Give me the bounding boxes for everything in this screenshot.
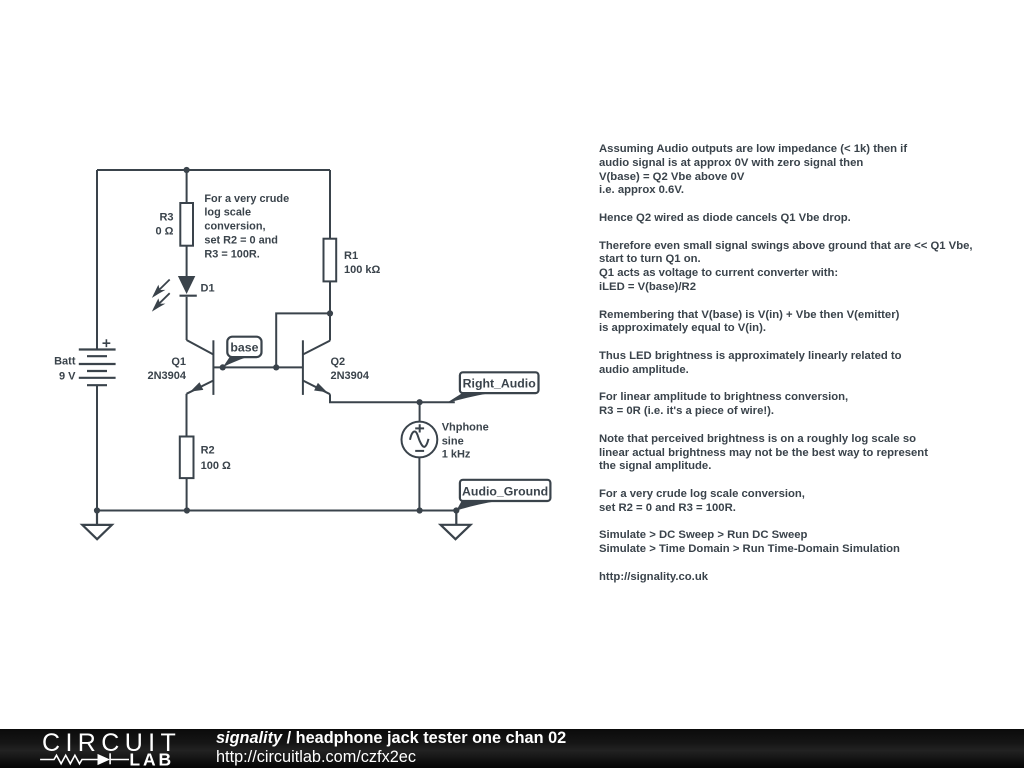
wire base xyxy=(213,366,303,368)
node R1 bottom junction xyxy=(327,310,333,316)
node base flag attach xyxy=(220,364,226,370)
node bottom rail ground xyxy=(453,507,459,513)
svg-text:D1: D1 xyxy=(201,283,215,295)
svg-text:LAB: LAB xyxy=(129,750,174,768)
label Q2 2N3904 xyxy=(331,356,370,382)
ground left xyxy=(82,511,112,540)
transistor Q2 2N3904 xyxy=(303,340,455,402)
svg-text:Q2: Q2 xyxy=(331,356,346,368)
svg-text:R2: R2 xyxy=(201,445,215,457)
wire bottom rail xyxy=(97,510,456,512)
ground right xyxy=(441,511,471,540)
svg-text:Audio_Ground: Audio_Ground xyxy=(462,484,548,498)
label R3 0 ohm xyxy=(156,212,174,238)
net flag Audio_Ground xyxy=(456,480,550,511)
svg-text:R3: R3 xyxy=(159,212,173,224)
svg-text:For a very crude: For a very crude xyxy=(204,193,289,205)
wire collector loop xyxy=(276,313,330,367)
transistor Q1 2N3904 xyxy=(187,340,214,437)
svg-text:2N3904: 2N3904 xyxy=(147,370,186,382)
label Vhphone sine 1kHz xyxy=(442,422,489,461)
net flag Right_Audio xyxy=(447,372,539,403)
node bottom rail source xyxy=(417,507,423,513)
resistor R3 xyxy=(180,170,193,276)
svg-text:0 Ω: 0 Ω xyxy=(156,225,174,237)
label R1 100k xyxy=(344,250,381,276)
resistor R1 xyxy=(324,170,337,341)
svg-text:conversion,: conversion, xyxy=(204,221,265,233)
svg-text:Vhphone: Vhphone xyxy=(442,422,489,434)
wire battery top xyxy=(96,170,98,350)
svg-text:R3 = 100R.: R3 = 100R. xyxy=(204,248,259,260)
annotation right text block xyxy=(599,143,999,585)
footer bar xyxy=(0,729,1024,768)
logo CIRCUIT LAB xyxy=(42,729,181,770)
resistor R2 xyxy=(180,437,194,511)
label Batt 9V xyxy=(54,356,76,383)
label Q1 2N3904 xyxy=(147,356,186,382)
logo circuit glyph xyxy=(40,753,129,764)
svg-text:base: base xyxy=(230,341,258,355)
node bottom rail battery xyxy=(94,507,100,513)
led D1 xyxy=(152,276,197,340)
svg-text:9 V: 9 V xyxy=(59,371,76,383)
svg-text:100 kΩ: 100 kΩ xyxy=(344,264,381,276)
net flag base xyxy=(223,337,262,368)
svg-text:set R2 = 0 and: set R2 = 0 and xyxy=(204,235,278,247)
svg-text:R1: R1 xyxy=(344,250,358,262)
wire battery bottom xyxy=(96,385,98,510)
voltage source Vhphone xyxy=(402,402,438,510)
svg-text:Batt: Batt xyxy=(54,356,76,368)
node emitter / source junction xyxy=(417,399,423,405)
svg-text:Q1: Q1 xyxy=(171,356,186,368)
svg-text:log scale: log scale xyxy=(204,207,251,219)
label D1 xyxy=(201,283,215,295)
label R2 100 ohm xyxy=(201,445,231,473)
battery Batt 9V xyxy=(79,339,116,385)
wire top rail xyxy=(97,169,330,171)
svg-text:100 Ω: 100 Ω xyxy=(201,460,231,472)
node top rail / R3 xyxy=(184,167,190,173)
node bottom rail R2 xyxy=(184,507,190,513)
annotation for a very crude log scale conversion xyxy=(204,193,289,261)
svg-text:sine: sine xyxy=(442,436,464,448)
svg-text:Right_Audio: Right_Audio xyxy=(463,376,537,390)
svg-text:2N3904: 2N3904 xyxy=(331,370,370,382)
svg-text:1 kHz: 1 kHz xyxy=(442,449,471,461)
node base loop junction xyxy=(273,364,279,370)
